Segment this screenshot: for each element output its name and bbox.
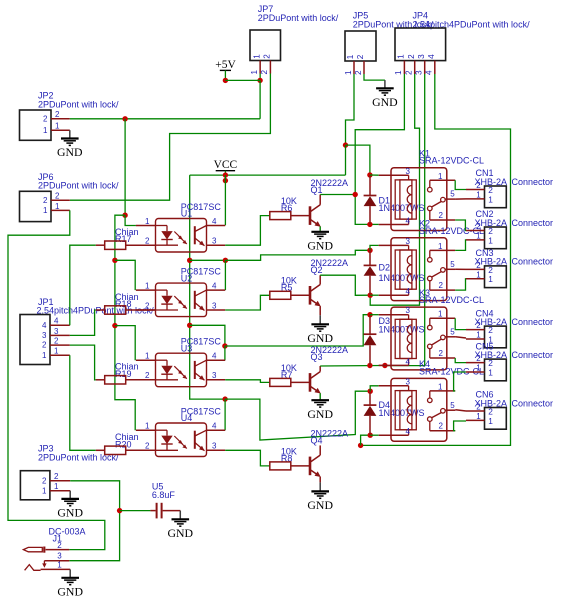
svg-text:4: 4 (406, 217, 411, 226)
junction K3 pin4 node (382, 363, 387, 368)
svg-text:5: 5 (450, 260, 455, 269)
svg-text:2: 2 (54, 472, 59, 481)
svg-text:1N4007WS: 1N4007WS (379, 408, 425, 418)
svg-text:Q2: Q2 (311, 265, 323, 275)
svg-text:SRA-12VDC-CL: SRA-12VDC-CL (419, 156, 484, 166)
wire drive node to D1 anode / K1 pin4 (370, 223, 379, 225)
wire U3 pin3 to R7 (225, 380, 270, 383)
svg-text:1: 1 (57, 560, 62, 569)
wire to U2 pin4 (224, 260, 226, 290)
wire K3 pin1 to CN4 pin2 (455, 318, 466, 329)
svg-text:1: 1 (394, 70, 403, 75)
svg-text:3: 3 (406, 306, 411, 315)
junction U2 pin1 branch (112, 258, 117, 263)
wire to U4 pin4 (224, 399, 226, 430)
svg-text:4: 4 (54, 317, 59, 326)
wire JP3 pin2 to U5 / J1 pin3 (69, 481, 119, 561)
svg-text:3: 3 (417, 54, 426, 59)
svg-text:1: 1 (438, 310, 443, 319)
svg-text:2: 2 (405, 70, 414, 75)
wire LED rail continues (115, 215, 135, 430)
svg-text:Connector: Connector (512, 317, 554, 327)
svg-text:1: 1 (476, 412, 481, 421)
svg-text:4: 4 (212, 217, 217, 226)
svg-text:1: 1 (476, 364, 481, 373)
svg-text:2: 2 (439, 349, 444, 358)
svg-text:VCC: VCC (214, 159, 238, 171)
wire K4 pin1 to CN5 pin1 (454, 372, 466, 391)
svg-text:1: 1 (252, 54, 261, 59)
svg-text:U1: U1 (181, 209, 193, 219)
wire JP6 pin1 to left rail (8, 210, 105, 549)
svg-text:1: 1 (145, 282, 150, 291)
wire D2 cathode to K2 pin3 (370, 245, 379, 250)
svg-text:GND: GND (57, 506, 83, 520)
wire Q2 collector to D2 anode (320, 275, 370, 295)
svg-text:GND: GND (372, 95, 398, 109)
svg-text:2: 2 (43, 196, 48, 205)
wire ch3 relay coil feed (225, 315, 370, 346)
junction ch4 coil node (222, 396, 227, 401)
wire VCC node down to VCC rail (345, 145, 347, 175)
wire U2 pin3 to R5 (225, 295, 270, 310)
svg-text:2: 2 (407, 54, 416, 59)
svg-text:1: 1 (54, 482, 59, 491)
junction +5V LED rail (122, 116, 127, 121)
wire JP4 pin2 to D2 anode node (370, 74, 419, 305)
ground at Q2 emitter (319, 315, 321, 324)
wire to U3 pin1 (115, 326, 135, 361)
svg-text:2PDuPont with lock/: 2PDuPont with lock/ (258, 13, 339, 23)
wire VCC branch ch2 (190, 259, 226, 261)
svg-text:1: 1 (438, 382, 443, 391)
svg-text:3: 3 (415, 70, 424, 75)
junction U3 pin1 branch (112, 323, 117, 328)
svg-text:4: 4 (212, 282, 217, 291)
wire JP2 pin2 (+5V net) (70, 118, 260, 120)
ground at U5 (179, 511, 181, 520)
svg-text:1: 1 (488, 235, 493, 245)
svg-text:4: 4 (425, 70, 434, 75)
svg-text:3: 3 (54, 327, 59, 336)
svg-text:1: 1 (488, 194, 493, 204)
wire D3 cathode to K3 pin3 (370, 314, 379, 316)
svg-text:U2: U2 (181, 273, 193, 283)
svg-text:Connector: Connector (512, 257, 554, 267)
svg-text:5: 5 (450, 190, 455, 199)
wire to U3 pin4 (224, 346, 226, 360)
svg-text:1N4007WS: 1N4007WS (379, 203, 425, 213)
svg-text:2: 2 (476, 181, 481, 190)
svg-text:GND: GND (307, 407, 333, 421)
wire K3 pin2 to CN5 pin2 (455, 358, 466, 363)
svg-text:1: 1 (476, 191, 481, 200)
svg-text:1: 1 (397, 54, 406, 59)
svg-text:1: 1 (43, 206, 48, 215)
wire Q3 collector to D3 anode / K3 pin4 (320, 365, 385, 368)
wire JP4 pin3 to K3 pin4 node (385, 74, 425, 366)
diode D4 1N4007WS (369, 391, 371, 405)
svg-text:+5V: +5V (215, 59, 236, 71)
svg-text:5: 5 (450, 327, 455, 336)
svg-text:2: 2 (55, 110, 60, 119)
svg-text:1: 1 (476, 232, 481, 241)
svg-text:R19: R19 (115, 369, 132, 379)
svg-text:2: 2 (439, 211, 444, 220)
wire ch4 relay coil feed (225, 391, 370, 440)
J1 pin1 sleeve (25, 565, 41, 571)
svg-text:2: 2 (476, 222, 481, 231)
svg-text:4: 4 (406, 357, 411, 366)
wire JP4 pin1 to Q1 collector / K1 pin4 node (355, 74, 404, 224)
junction D4 anode (368, 433, 373, 438)
diode D3 1N4007WS (369, 315, 371, 335)
wire JP1 pin3 to R18 (70, 310, 96, 335)
wire D1 cathode to K1 pin3 (370, 174, 379, 176)
wire JP7 pin2 to JP6 pin2 (70, 74, 271, 201)
wire JP1 pin4 to R17 (70, 245, 96, 325)
wire to K2 pin4 (370, 294, 379, 296)
wire VCC main vertical (190, 175, 225, 399)
wire +5V LED rail vertical (124, 119, 126, 215)
svg-text:D2: D2 (379, 263, 391, 273)
ground at Q3 emitter (319, 399, 321, 400)
junction VCC feed node (343, 142, 348, 147)
svg-text:GND: GND (168, 526, 194, 540)
svg-text:1N4007WS: 1N4007WS (379, 273, 425, 283)
svg-text:2: 2 (354, 70, 363, 75)
junction D3 anode (367, 363, 372, 368)
wire Q1 collector to drive node (320, 194, 355, 196)
wire JP7 pin1 to +5V node (259, 74, 261, 81)
svg-text:1: 1 (250, 70, 259, 75)
svg-text:Q3: Q3 (311, 352, 323, 362)
junction D2 cathode (367, 248, 372, 253)
svg-text:1: 1 (476, 270, 481, 279)
wire K1 pin1 to CN1 pin2 (455, 180, 466, 189)
wire VCC rail (190, 174, 346, 176)
svg-text:U4: U4 (181, 413, 193, 423)
ground at JP2 pin1 (69, 130, 71, 138)
junction VCC vertical ch2 (187, 258, 192, 263)
svg-text:1: 1 (145, 422, 150, 431)
wire U1 pin3 to R6 (225, 216, 270, 246)
svg-text:4: 4 (212, 422, 217, 431)
svg-text:1: 1 (42, 486, 47, 495)
svg-text:R17: R17 (115, 234, 132, 244)
wire K4 pin2 to CN6 pin1 (454, 421, 466, 431)
wire JP5 pin2 to GND (364, 74, 385, 80)
svg-text:Connector: Connector (512, 218, 554, 228)
svg-text:GND: GND (307, 238, 333, 252)
junction D4 cathode (368, 389, 373, 394)
junction U2 pin4 node (223, 258, 228, 263)
ground at JP5 (384, 80, 386, 88)
ground at Q1 emitter (319, 231, 321, 232)
svg-text:2: 2 (145, 371, 150, 380)
ground at Q4 emitter (319, 482, 321, 491)
svg-text:1: 1 (488, 367, 493, 377)
diode D2 1N4007WS (369, 250, 371, 265)
svg-text:6.8uF: 6.8uF (152, 490, 176, 500)
ground at J1 pin1 (69, 569, 71, 577)
junction ch3 coil node (222, 343, 227, 348)
wire D4 cathode to K4 pin3 (370, 386, 379, 391)
junction Q4 collector (358, 443, 363, 448)
svg-text:2: 2 (145, 442, 150, 451)
svg-text:1: 1 (488, 416, 493, 426)
svg-text:1: 1 (346, 54, 355, 59)
wire K1 pin5 to CN1 pin1 (455, 198, 466, 200)
svg-text:2: 2 (356, 54, 365, 59)
svg-text:5: 5 (450, 401, 455, 410)
svg-text:1: 1 (344, 70, 353, 75)
svg-text:GND: GND (57, 145, 83, 159)
svg-text:3: 3 (212, 301, 217, 310)
svg-text:4: 4 (427, 54, 436, 59)
junction Q1 collector (353, 192, 358, 197)
svg-text:2: 2 (260, 70, 269, 75)
svg-text:3: 3 (42, 331, 47, 340)
junction D2 anode (368, 293, 373, 298)
junction +5V node (223, 78, 228, 83)
junction VCC stub (223, 172, 228, 177)
svg-text:2: 2 (57, 541, 62, 550)
svg-text:2PDuPont with lock/: 2PDuPont with lock/ (38, 181, 119, 191)
svg-text:3: 3 (406, 377, 411, 386)
svg-text:4: 4 (406, 287, 411, 296)
wire K2 pin1 to CN2 pin1 (455, 240, 466, 251)
svg-text:2: 2 (42, 476, 47, 485)
wire +5V down to JP2 pin2 rail (259, 80, 261, 118)
svg-text:2: 2 (476, 354, 481, 363)
svg-text:Connector: Connector (512, 350, 554, 360)
ground at JP3 pin1 (69, 491, 71, 499)
wire JP1 pin1 to R20 (70, 355, 96, 450)
svg-text:Q1: Q1 (311, 185, 323, 195)
svg-text:4: 4 (406, 427, 411, 436)
svg-text:2: 2 (55, 192, 60, 201)
svg-text:2: 2 (145, 301, 150, 310)
wire K2 pin2 to CN3 pin1 (455, 279, 466, 290)
svg-text:U3: U3 (181, 343, 193, 353)
wire VCC to U1 pin4 (224, 175, 226, 225)
svg-text:GND: GND (307, 498, 333, 512)
svg-text:1N4007WS: 1N4007WS (379, 324, 425, 334)
wire JP5 pin1 (VCC net) (346, 74, 355, 145)
svg-text:1: 1 (145, 217, 150, 226)
svg-text:Q4: Q4 (311, 435, 323, 445)
svg-text:3: 3 (212, 371, 217, 380)
svg-text:1: 1 (438, 242, 443, 251)
svg-text:GND: GND (307, 331, 333, 345)
svg-text:Connector: Connector (512, 177, 554, 187)
svg-text:2: 2 (476, 403, 481, 412)
svg-text:2: 2 (439, 422, 444, 431)
svg-text:1: 1 (55, 122, 60, 131)
svg-text:2: 2 (42, 341, 47, 350)
svg-text:3: 3 (212, 237, 217, 246)
junction D1 anode (367, 222, 372, 227)
wire K3 pin5 to CN4 pin1 (455, 337, 466, 338)
wire VCC branch ch3 (190, 325, 225, 346)
junction VCC vertical ch3 (187, 323, 192, 328)
svg-text:3: 3 (212, 442, 217, 451)
wire K4 pin5 to CN6 pin2 (455, 410, 466, 411)
junction U1 pin1 branch (122, 213, 127, 218)
svg-text:3: 3 (57, 552, 62, 561)
svg-text:GND: GND (57, 584, 83, 598)
svg-text:3: 3 (406, 167, 411, 176)
svg-text:1: 1 (476, 331, 481, 340)
wire K2 pin5 to CN3 pin2 (455, 268, 466, 270)
wire Q4 collector branch to D4 anode (361, 435, 371, 445)
svg-text:R20: R20 (115, 439, 132, 449)
svg-text:2PDuPont with lock/: 2PDuPont with lock/ (38, 99, 119, 109)
svg-text:4: 4 (42, 321, 47, 330)
svg-text:1: 1 (43, 126, 48, 135)
svg-text:2: 2 (439, 281, 444, 290)
wire JP4 pin4 to Q4 collector node (361, 74, 511, 445)
junction D3 cathode (367, 312, 372, 317)
svg-text:4: 4 (212, 352, 217, 361)
svg-text:2: 2 (476, 321, 481, 330)
svg-text:Connector: Connector (512, 398, 554, 408)
svg-text:3: 3 (406, 237, 411, 246)
diode D1 1N4007WS (369, 175, 371, 196)
wire ch2 relay coil feed (225, 250, 370, 260)
wire K1 pin2 to CN2 pin2 (455, 220, 466, 231)
svg-text:2: 2 (43, 114, 48, 123)
svg-text:2: 2 (145, 237, 150, 246)
wire to U1 pin1 (125, 215, 136, 225)
svg-text:R18: R18 (115, 299, 132, 309)
wire JP1 pin2 to R19 (70, 345, 96, 380)
svg-text:2: 2 (54, 337, 59, 346)
wire +5V node link (225, 79, 260, 81)
svg-text:SRA-12VDC-CL: SRA-12VDC-CL (419, 295, 484, 305)
svg-text:1: 1 (438, 172, 443, 181)
junction D1 cathode (367, 172, 372, 177)
svg-text:2: 2 (263, 54, 272, 59)
wire to K4 pin4 (370, 434, 379, 436)
svg-text:2: 2 (476, 261, 481, 270)
svg-text:1: 1 (54, 347, 59, 356)
wire VCC node to K1 coil/D1 cathode (346, 145, 370, 175)
wire to U2 pin1 (115, 260, 135, 290)
svg-text:1: 1 (145, 352, 150, 361)
J1 pin3 switch contact (44, 560, 69, 562)
wire U4 pin3 to R8 (225, 450, 270, 466)
svg-text:1: 1 (55, 202, 60, 211)
junction U5 node (117, 508, 122, 513)
svg-text:1: 1 (488, 274, 493, 284)
svg-text:1: 1 (42, 351, 47, 360)
